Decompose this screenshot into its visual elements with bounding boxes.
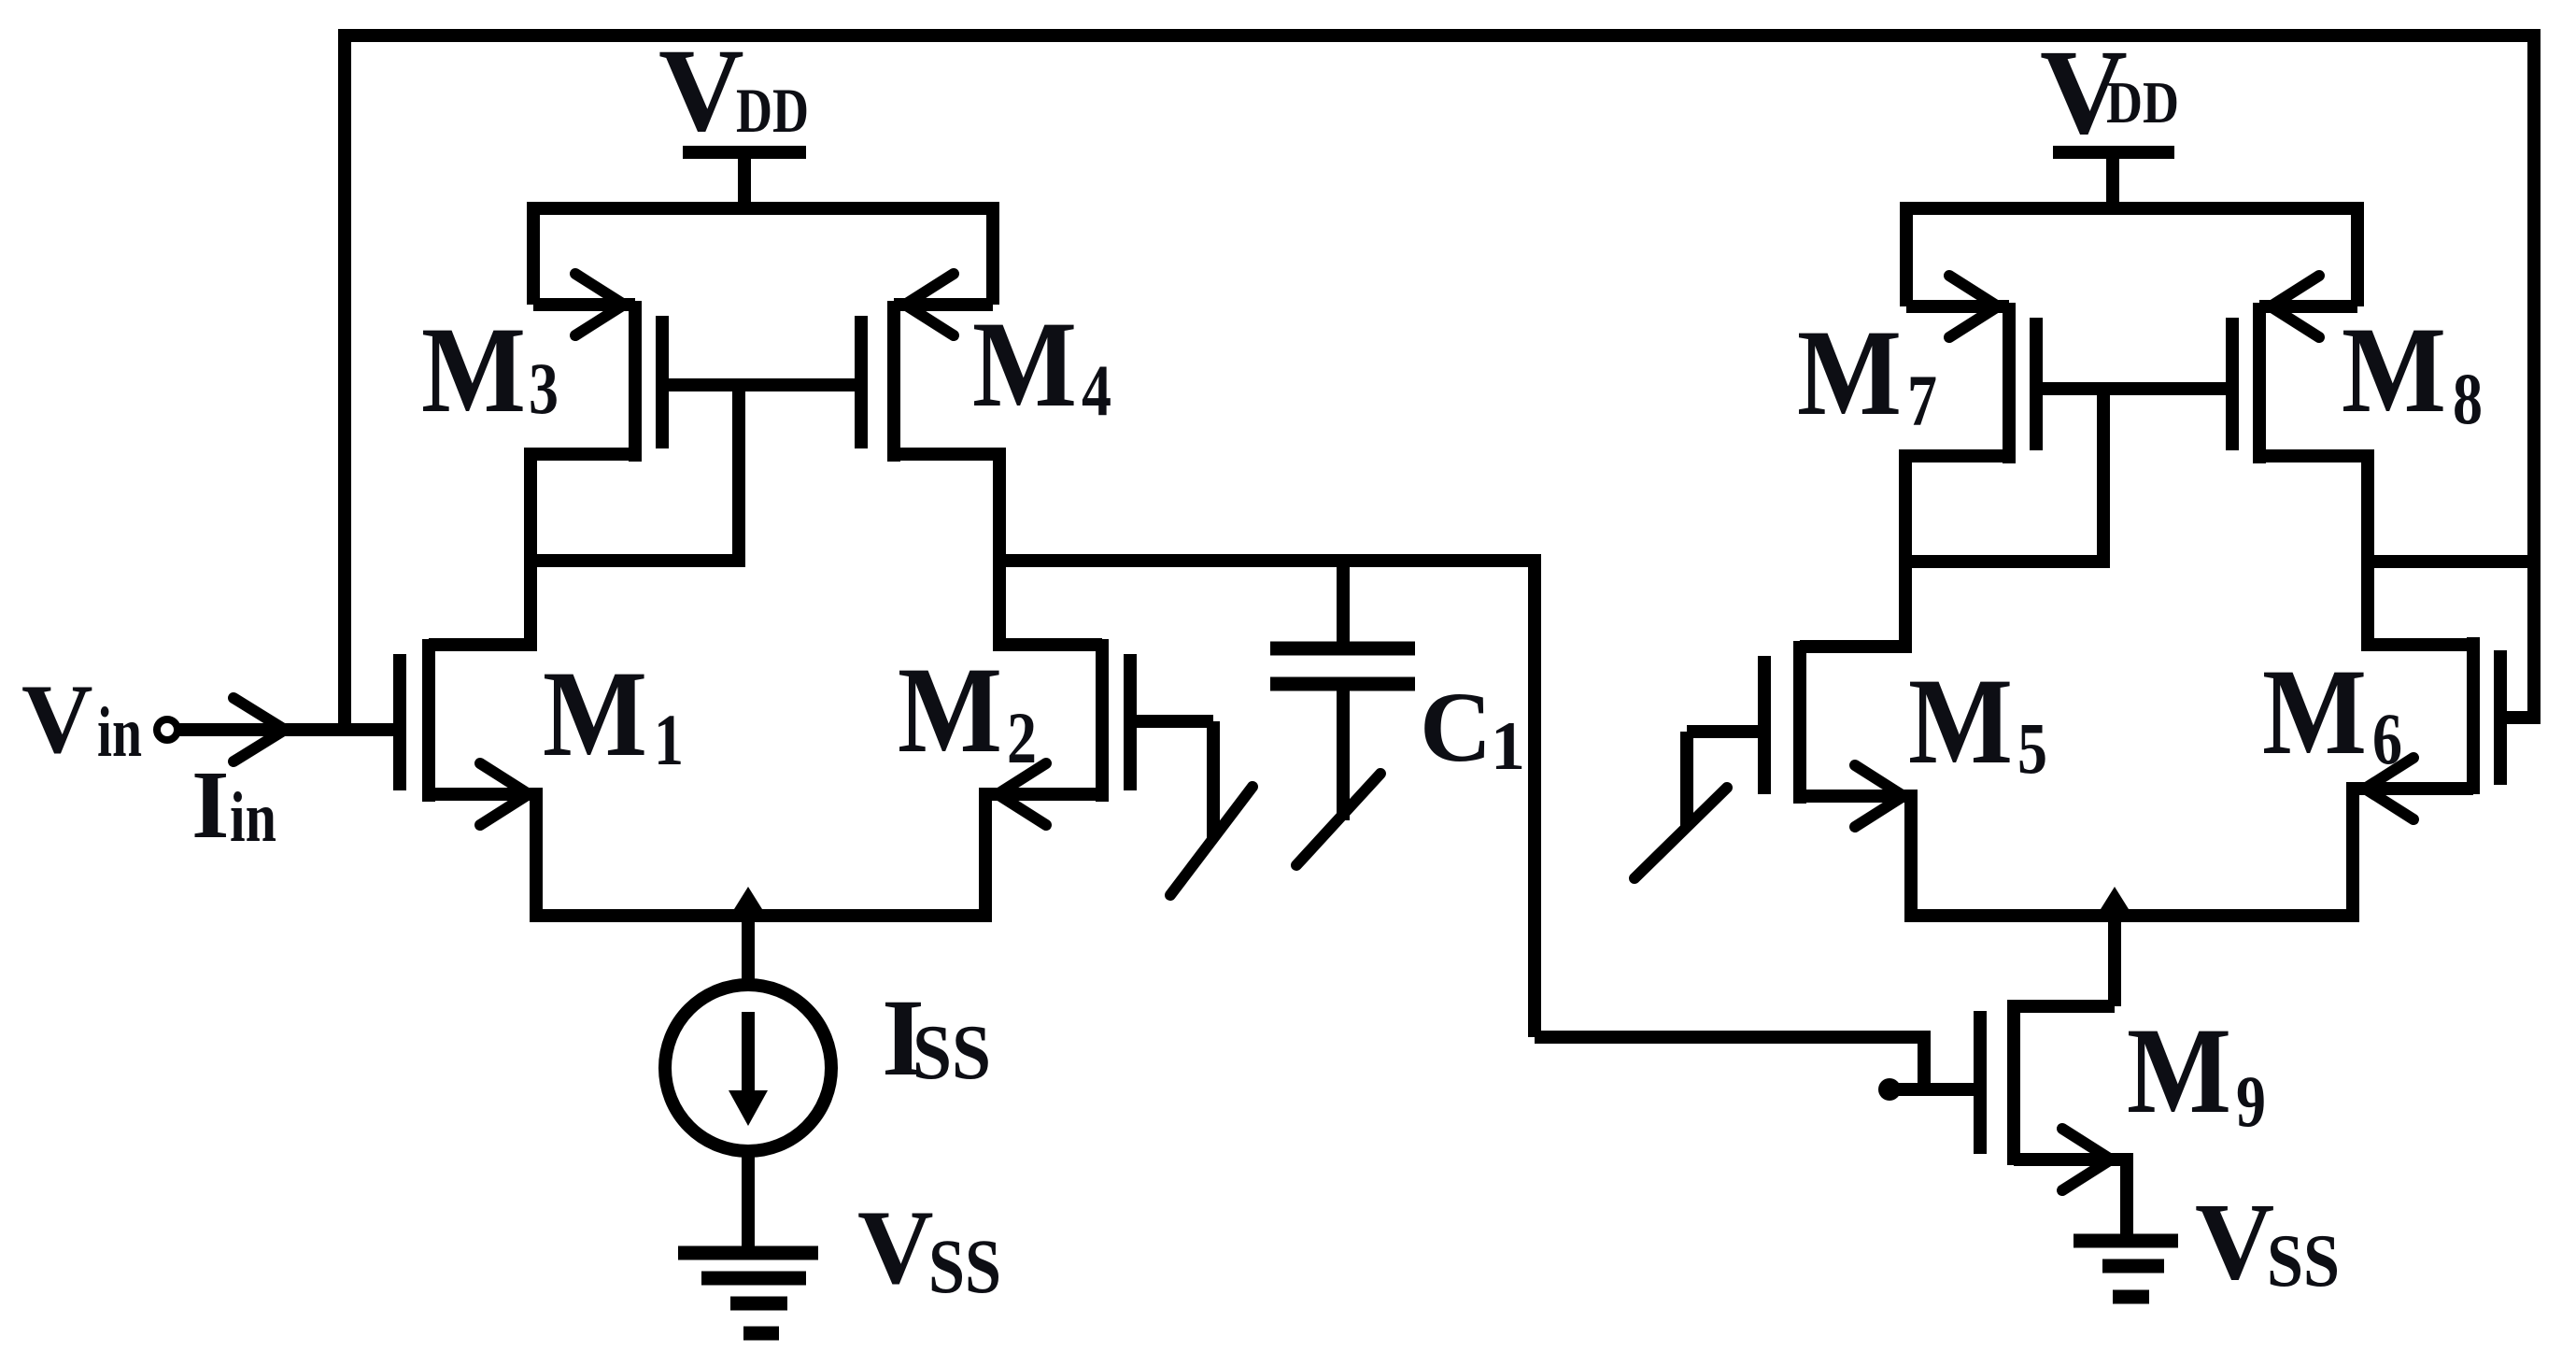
wire gate net M7-M8 xyxy=(2036,382,2232,395)
svg-text:6: 6 xyxy=(2372,698,2402,779)
wire tail node of M1/M2 xyxy=(536,788,985,916)
wire diode tie M3 gate to drain xyxy=(531,385,739,561)
svg-text:I: I xyxy=(191,751,229,859)
label M7 xyxy=(1797,304,1937,441)
svg-text:5: 5 xyxy=(2017,707,2047,789)
svg-text:M: M xyxy=(1908,652,2013,790)
power VDD left symbol xyxy=(683,152,806,208)
ground VSS right xyxy=(2074,1241,2178,1297)
svg-text:1: 1 xyxy=(1491,708,1525,785)
label VSS left xyxy=(857,1189,1001,1309)
svg-text:M: M xyxy=(1797,304,1902,441)
wire M9 gate net from output xyxy=(1535,1031,1924,1089)
svg-text:in: in xyxy=(97,693,142,772)
transistor M2 xyxy=(985,639,1213,825)
svg-text:in: in xyxy=(230,778,276,857)
label M6 xyxy=(2262,643,2402,780)
label VDD left xyxy=(658,25,809,156)
transistor M5 xyxy=(1687,641,1911,827)
junction arrow at tail node xyxy=(729,887,767,917)
label M8 xyxy=(2342,301,2483,439)
transistor M8 xyxy=(2232,276,2368,463)
svg-text:V: V xyxy=(21,664,93,774)
wire VDD rail of M3/M4 mirror xyxy=(533,208,993,305)
switch symbol at M2 gate xyxy=(1170,721,1253,895)
junction arrow at right tail node xyxy=(2096,887,2133,917)
wire M7 drain to M5 drain column xyxy=(1899,449,1912,653)
transistor M7 xyxy=(1905,276,2036,463)
wire ISS to ground xyxy=(742,1149,755,1248)
svg-text:SS: SS xyxy=(2267,1220,2340,1302)
switch symbol at M5 gate xyxy=(1635,732,1727,878)
wire feedback tie M8 drain to right drop xyxy=(2368,555,2534,568)
svg-text:M: M xyxy=(972,295,1077,433)
transistor M6 xyxy=(2353,637,2534,819)
label M9 xyxy=(2127,1002,2266,1142)
svg-text:8: 8 xyxy=(2453,358,2483,439)
svg-text:SS: SS xyxy=(928,1223,1001,1309)
node Vin input terminal xyxy=(157,719,177,740)
wire output node down to M9 gate level xyxy=(1528,554,1541,1037)
label ISS xyxy=(882,976,991,1099)
svg-text:V: V xyxy=(2195,1180,2274,1302)
svg-text:2: 2 xyxy=(1007,697,1037,778)
label M2 xyxy=(898,641,1037,778)
wire VDD rail of M7/M8 mirror xyxy=(1906,208,2357,306)
wire top feedback net (Vin to M8 drain / M6 gate) xyxy=(345,29,2534,42)
svg-text:M: M xyxy=(543,645,647,782)
svg-text:DD: DD xyxy=(2106,69,2179,135)
svg-text:7: 7 xyxy=(1907,360,1937,441)
wire tail node of M5/M6 xyxy=(1911,782,2353,916)
wire M3 drain to M1 drain column xyxy=(524,448,537,651)
wire M9 source to ground xyxy=(2120,1153,2133,1239)
wire M4 drain to M2 drain column xyxy=(993,448,1006,651)
svg-text:M: M xyxy=(2127,1002,2231,1139)
svg-text:1: 1 xyxy=(654,699,684,780)
wire first stage output node xyxy=(999,554,1535,567)
label C1 xyxy=(1420,673,1525,785)
wire M8 drain to M6 drain column xyxy=(2361,449,2374,651)
label VDD right xyxy=(2040,25,2179,160)
current arrow Iin on input wire xyxy=(234,698,285,761)
transistor M9 xyxy=(1890,1000,2127,1190)
transistor M4 xyxy=(861,274,999,462)
label M1 xyxy=(543,645,684,782)
label M3 xyxy=(421,301,559,438)
wire gate net M3-M4 xyxy=(662,378,861,391)
svg-text:V: V xyxy=(658,25,744,156)
wire diode tie M7 gate to drain xyxy=(1905,389,2103,562)
wire right tail down to M9 drain xyxy=(2108,916,2121,1006)
svg-text:SS: SS xyxy=(913,1009,991,1096)
svg-text:M: M xyxy=(2262,643,2367,780)
wire input net Vin to M1 gate xyxy=(177,723,400,736)
switch symbol below C1 xyxy=(1296,774,1380,865)
ground VSS left xyxy=(678,1253,818,1333)
label VSS right xyxy=(2195,1180,2340,1302)
transistor M3 xyxy=(531,274,662,462)
power VDD right symbol xyxy=(2053,152,2174,208)
svg-text:C: C xyxy=(1420,673,1492,783)
wire left feedback drop to input node xyxy=(338,29,351,730)
transistor M1 xyxy=(400,639,536,825)
svg-text:V: V xyxy=(857,1189,934,1306)
svg-text:DD: DD xyxy=(736,75,809,146)
svg-text:9: 9 xyxy=(2236,1060,2266,1142)
svg-text:4: 4 xyxy=(1082,349,1111,431)
label M5 xyxy=(1908,652,2047,790)
node dot at M9 gate stub xyxy=(1878,1078,1901,1101)
wire right feedback drop to M8 drain and M6 gate xyxy=(2527,29,2541,724)
label M4 xyxy=(972,295,1111,433)
svg-text:M: M xyxy=(898,641,1002,778)
svg-text:M: M xyxy=(421,301,526,438)
svg-text:3: 3 xyxy=(529,348,559,429)
svg-text:M: M xyxy=(2342,301,2446,438)
capacitor C1 xyxy=(1270,554,1415,820)
current source ISS xyxy=(665,985,831,1151)
wire tail to ISS xyxy=(742,916,755,986)
